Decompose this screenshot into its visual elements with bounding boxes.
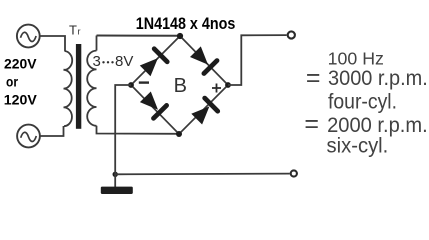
svg-text:six-cyl.: six-cyl.	[327, 135, 389, 158]
svg-text:220V: 220V	[4, 56, 37, 72]
svg-text:=: =	[306, 64, 321, 92]
svg-text:1N4148 x 4nos: 1N4148 x 4nos	[136, 15, 236, 33]
svg-text:3: 3	[93, 53, 101, 70]
svg-text:four-cyl.: four-cyl.	[328, 91, 397, 114]
svg-text:r: r	[78, 27, 81, 37]
svg-text:B: B	[174, 75, 187, 97]
svg-text:120V: 120V	[4, 91, 38, 107]
svg-text:T: T	[69, 23, 77, 38]
svg-text:2000 r.p.m.: 2000 r.p.m.	[327, 114, 428, 137]
svg-text:=: =	[304, 110, 319, 138]
svg-text:3000 r.p.m.: 3000 r.p.m.	[328, 67, 428, 90]
svg-text:or: or	[6, 74, 18, 90]
svg-text:8V: 8V	[115, 53, 133, 70]
svg-text:100 Hz: 100 Hz	[328, 49, 384, 69]
